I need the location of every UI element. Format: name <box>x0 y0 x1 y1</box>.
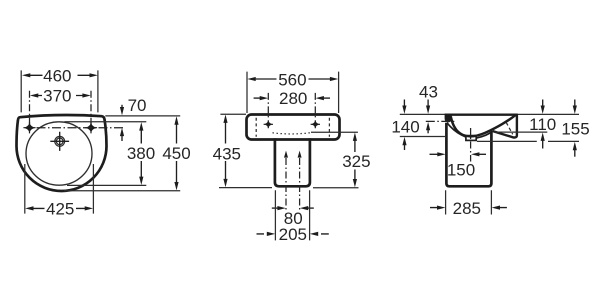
basin bowl silhouette <box>451 115 516 136</box>
semi-pedestal (side) <box>446 123 491 187</box>
svg-text:70: 70 <box>128 96 147 115</box>
dim 285 line+arrows <box>430 207 507 209</box>
svg-text:325: 325 <box>342 152 370 171</box>
dim 110 up arrow <box>542 140 544 149</box>
dim 140 down arrow <box>403 100 405 107</box>
svg-text:560: 560 <box>278 71 306 90</box>
svg-text:280: 280 <box>279 89 307 108</box>
svg-text:450: 450 <box>162 144 190 163</box>
dim 370 line+arrows <box>38 95 84 97</box>
tap axis dash-dot line <box>37 127 125 129</box>
tap hole left (front) <box>265 121 272 127</box>
basin front lip <box>446 115 451 122</box>
dim 70 down arrow <box>121 105 123 109</box>
top edge extension line (right, ref for 70 and 450) <box>105 115 180 117</box>
hidden interior side walls (dashed) <box>256 118 329 137</box>
inner bowl bottom extension line (ref for 380) <box>67 184 146 186</box>
dim 43 up arrow <box>427 129 429 133</box>
dim 140 up arrow <box>404 144 406 150</box>
dim 155 up arrow <box>574 149 576 157</box>
dim 205 line+arrows <box>257 233 329 235</box>
dim 70 up arrow <box>121 136 123 141</box>
dim 370 extension dash-dot lines <box>30 91 92 124</box>
dim 425 line+arrows <box>33 207 86 209</box>
dim 325 line+arrows <box>354 140 356 180</box>
dim 110 bottom reference line <box>494 131 547 133</box>
basin top edge (thick) <box>445 113 518 115</box>
svg-text:460: 460 <box>43 66 71 85</box>
tap hole right (front) <box>312 121 319 127</box>
inner bowl top extension line (ref for 380) <box>65 121 147 123</box>
top reference line (full width) <box>400 113 579 115</box>
svg-text:205: 205 <box>279 225 307 244</box>
dim 150 arrow (points left to drain axis) <box>478 153 486 155</box>
dim 450 line+arrows <box>176 124 178 183</box>
interior bottom extension line (ref for 325) <box>311 131 358 133</box>
dim 285 extension lines <box>446 190 492 214</box>
dim 43 down arrow <box>427 100 429 107</box>
svg-text:150: 150 <box>447 160 475 179</box>
dim 380 line+arrows <box>140 131 142 178</box>
svg-text:435: 435 <box>213 145 241 164</box>
dim 435 top reference line <box>220 113 246 115</box>
svg-text:110: 110 <box>529 115 556 134</box>
hidden bracket edge (dashed) <box>506 122 513 134</box>
tap hole left (diamond+cross) <box>25 124 34 132</box>
dim 110 down arrow <box>542 100 544 107</box>
dim 560 line+arrows <box>255 78 331 80</box>
back wall edge + bracket bottom <box>493 115 517 138</box>
tap axis dash-dot (side) <box>426 120 457 122</box>
basin underside (back slope) <box>477 131 493 138</box>
basin body (front) <box>247 115 340 140</box>
pedestal bottom extension line right <box>313 187 359 189</box>
svg-text:285: 285 <box>453 199 481 218</box>
dim 435 line+arrows <box>225 122 227 180</box>
fixing bolt arrows inside pedestal <box>284 151 288 158</box>
svg-text:155: 155 <box>561 120 589 139</box>
svg-text:380: 380 <box>127 144 155 163</box>
tap axis vertical dash-dot lines <box>268 93 315 120</box>
dim 460 extension lines <box>21 70 98 112</box>
svg-text:370: 370 <box>43 87 71 106</box>
basin outline (plan) <box>17 115 107 191</box>
dim 140 bottom reference line <box>400 136 446 138</box>
pedestal bottom extension line left <box>219 187 272 189</box>
dim 155 bottom reference line <box>477 140 579 142</box>
drain axis dash-dot (side) <box>470 128 472 162</box>
dim 460 line+arrows <box>30 74 91 76</box>
hidden interior bottom (dotted) <box>273 133 312 134</box>
svg-text:43: 43 <box>419 82 438 101</box>
basin underside (front slope) <box>447 123 466 137</box>
svg-text:425: 425 <box>46 200 74 219</box>
dim 280 arrows (outside, pointing in) <box>254 97 261 99</box>
basin inner bowl (plan) <box>26 122 92 185</box>
dim 560 extension lines <box>247 72 339 113</box>
drain fitting <box>466 136 476 141</box>
dim 425 extension lines <box>25 164 94 214</box>
dim 150 arrow (points right to pedestal front edge) <box>430 153 439 155</box>
tap hole right (diamond+cross) <box>86 124 95 132</box>
dim 80 arrows (outside, pointing in) <box>272 207 279 209</box>
dim 205 extension lines <box>275 190 309 240</box>
fixing bolt axis dash-dot lines <box>286 158 300 211</box>
drain crosshair <box>50 132 69 151</box>
drain circles <box>55 136 65 146</box>
svg-text:140: 140 <box>391 117 419 136</box>
basin bottom extension line (ref for 450) <box>64 190 180 192</box>
dim 155 down arrow <box>574 100 576 107</box>
semi-pedestal (front) <box>275 138 310 186</box>
